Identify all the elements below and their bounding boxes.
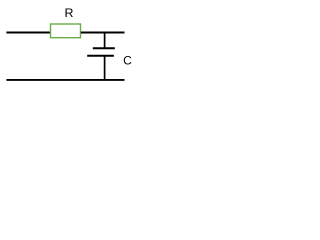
wire: capacitor top lead — [104, 33, 106, 49]
wire: input top-left horizontal — [6, 32, 50, 34]
wire: top rail from resistor to right end — [81, 32, 125, 34]
svg-text:C: C — [123, 53, 132, 67]
wire: bottom return rail — [6, 79, 124, 81]
capacitor C top plate — [93, 47, 115, 49]
capacitor C bottom plate — [87, 55, 114, 57]
svg-text:R: R — [65, 6, 74, 20]
resistor R — [51, 24, 81, 38]
wire: capacitor bottom lead — [104, 56, 106, 80]
